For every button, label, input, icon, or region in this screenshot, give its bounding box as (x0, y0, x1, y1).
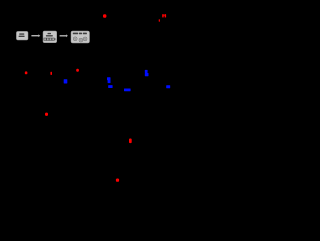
atom O (small, molecule 2) (159, 19, 160, 22)
flowchart box 2 (test library) (43, 31, 57, 43)
atom O (molecule 1 top) (76, 69, 79, 72)
flowchart box 3 (case manager with circles) (71, 31, 90, 43)
atom N (molecule 4) (166, 85, 170, 88)
atom N (molecule 1) (64, 79, 68, 83)
atom N stacked pair (molecule 3) (107, 77, 111, 83)
atom O (molecule 1 lower) (45, 113, 48, 116)
arrow 1 (31, 34, 40, 37)
atom NH (molecule 3 right) (124, 89, 131, 92)
atom O (molecule 6) (116, 179, 119, 182)
atom NH (molecule 3) (108, 85, 112, 88)
flowchart box 1 (scanner) (16, 31, 28, 40)
atom O (narrow, molecule 1) (50, 72, 52, 75)
atom N stacked pair (molecule 4 pyrimidine) (145, 70, 149, 76)
arrow 2 (60, 34, 68, 37)
atom O (methoxy, molecule 1 left) (25, 71, 28, 74)
atom OH (molecule 2 top right) (162, 14, 166, 17)
atom O (molecule 5) (129, 139, 132, 144)
atom O (ketone, molecule 2 top) (103, 14, 106, 18)
